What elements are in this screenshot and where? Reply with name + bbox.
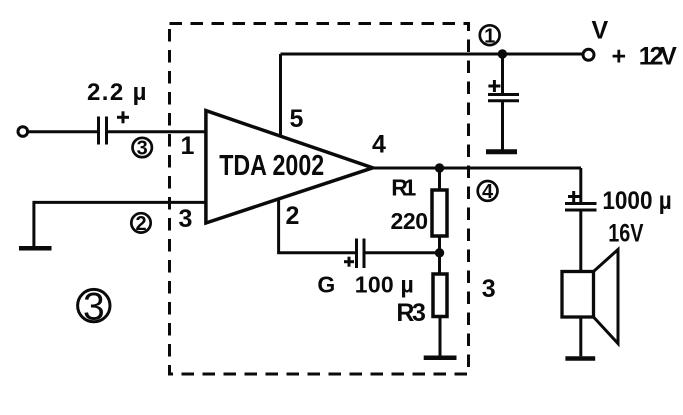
junction node R1/R3/CG bbox=[435, 248, 444, 257]
node 3 circled near input bbox=[133, 138, 152, 160]
svg-text:3: 3 bbox=[137, 138, 148, 160]
resistor R1 lead top bbox=[438, 168, 441, 190]
svg-text:16V: 16V bbox=[608, 220, 643, 248]
polarity + of CG bbox=[344, 257, 354, 267]
wire C3 to speaker bbox=[579, 210, 582, 272]
schematic number 3 circled bbox=[78, 286, 110, 329]
bypass capacitor C2 plates bbox=[488, 95, 519, 101]
svg-text:1: 1 bbox=[181, 132, 195, 160]
svg-text:V: V bbox=[592, 17, 609, 45]
svg-text:12V: 12V bbox=[639, 43, 677, 71]
svg-text:1: 1 bbox=[484, 25, 495, 47]
wire input to C1 bbox=[28, 130, 98, 133]
op-amp U1 TDA2002 triangle bbox=[206, 111, 373, 223]
svg-text:1000 µ: 1000 µ bbox=[602, 187, 671, 215]
capacitor CG 100u plates bbox=[357, 239, 365, 269]
wire C1 to pin 1 bbox=[108, 130, 206, 133]
input terminal bbox=[18, 127, 28, 137]
output node junction bbox=[435, 163, 444, 172]
wire CG to junction bbox=[366, 251, 440, 254]
pin 5 wire bbox=[279, 54, 282, 136]
resistor R3 lead top bbox=[438, 253, 441, 274]
bypass capacitor C2 wire top bbox=[501, 54, 504, 93]
ground left bbox=[19, 246, 52, 251]
junction supply node bbox=[498, 49, 507, 58]
capacitor C1 2.2u plates bbox=[99, 117, 107, 145]
svg-text:TDA 2002: TDA 2002 bbox=[219, 150, 324, 182]
node 2 circled bbox=[131, 213, 150, 235]
svg-text:3: 3 bbox=[83, 286, 105, 329]
supply wire bbox=[281, 53, 584, 56]
bypass capacitor C2 wire bottom bbox=[501, 101, 504, 150]
resistor R1 body bbox=[432, 190, 447, 236]
svg-text:2: 2 bbox=[135, 213, 146, 235]
speaker cone bbox=[594, 250, 619, 344]
svg-text:G: G bbox=[317, 271, 335, 297]
svg-text:+: + bbox=[612, 43, 627, 71]
module boundary dashed box bbox=[170, 24, 469, 375]
ground speaker bbox=[565, 356, 595, 361]
polarity + of C1 bbox=[117, 111, 129, 123]
ground bypass cap bbox=[486, 149, 517, 154]
svg-text:R 1: R 1 bbox=[391, 175, 416, 201]
wire down to left ground bbox=[32, 201, 35, 246]
speaker body bbox=[562, 272, 594, 318]
svg-text:4: 4 bbox=[372, 131, 386, 159]
pin 2 wire bbox=[279, 200, 355, 253]
node 1 circled bbox=[480, 25, 500, 47]
ground R3 bbox=[424, 355, 457, 360]
output wire pin 4 bbox=[373, 167, 581, 170]
resistor R3 lead bottom bbox=[439, 317, 442, 357]
resistor R3 body bbox=[433, 274, 447, 317]
wire speaker to ground bbox=[579, 317, 582, 356]
svg-text:3: 3 bbox=[482, 275, 496, 303]
svg-text:2: 2 bbox=[286, 202, 300, 230]
polarity + of C3 bbox=[568, 191, 580, 202]
wire output corner down to C3 bbox=[579, 168, 582, 202]
supply terminal circle bbox=[583, 49, 594, 60]
svg-text:5: 5 bbox=[290, 105, 304, 133]
pin 3 wire bbox=[34, 201, 206, 204]
svg-text:2.2 µ: 2.2 µ bbox=[87, 79, 147, 106]
node 4 circled bbox=[478, 181, 498, 203]
svg-text:R 3: R 3 bbox=[396, 299, 426, 327]
svg-text:3: 3 bbox=[179, 205, 193, 233]
svg-text:220: 220 bbox=[391, 208, 429, 234]
svg-text:100 µ: 100 µ bbox=[355, 272, 414, 298]
resistor R1 lead bottom bbox=[438, 236, 441, 253]
svg-text:4: 4 bbox=[482, 181, 494, 203]
capacitor C3 1000u plates bbox=[565, 204, 597, 211]
polarity + of C2 bbox=[488, 80, 500, 92]
